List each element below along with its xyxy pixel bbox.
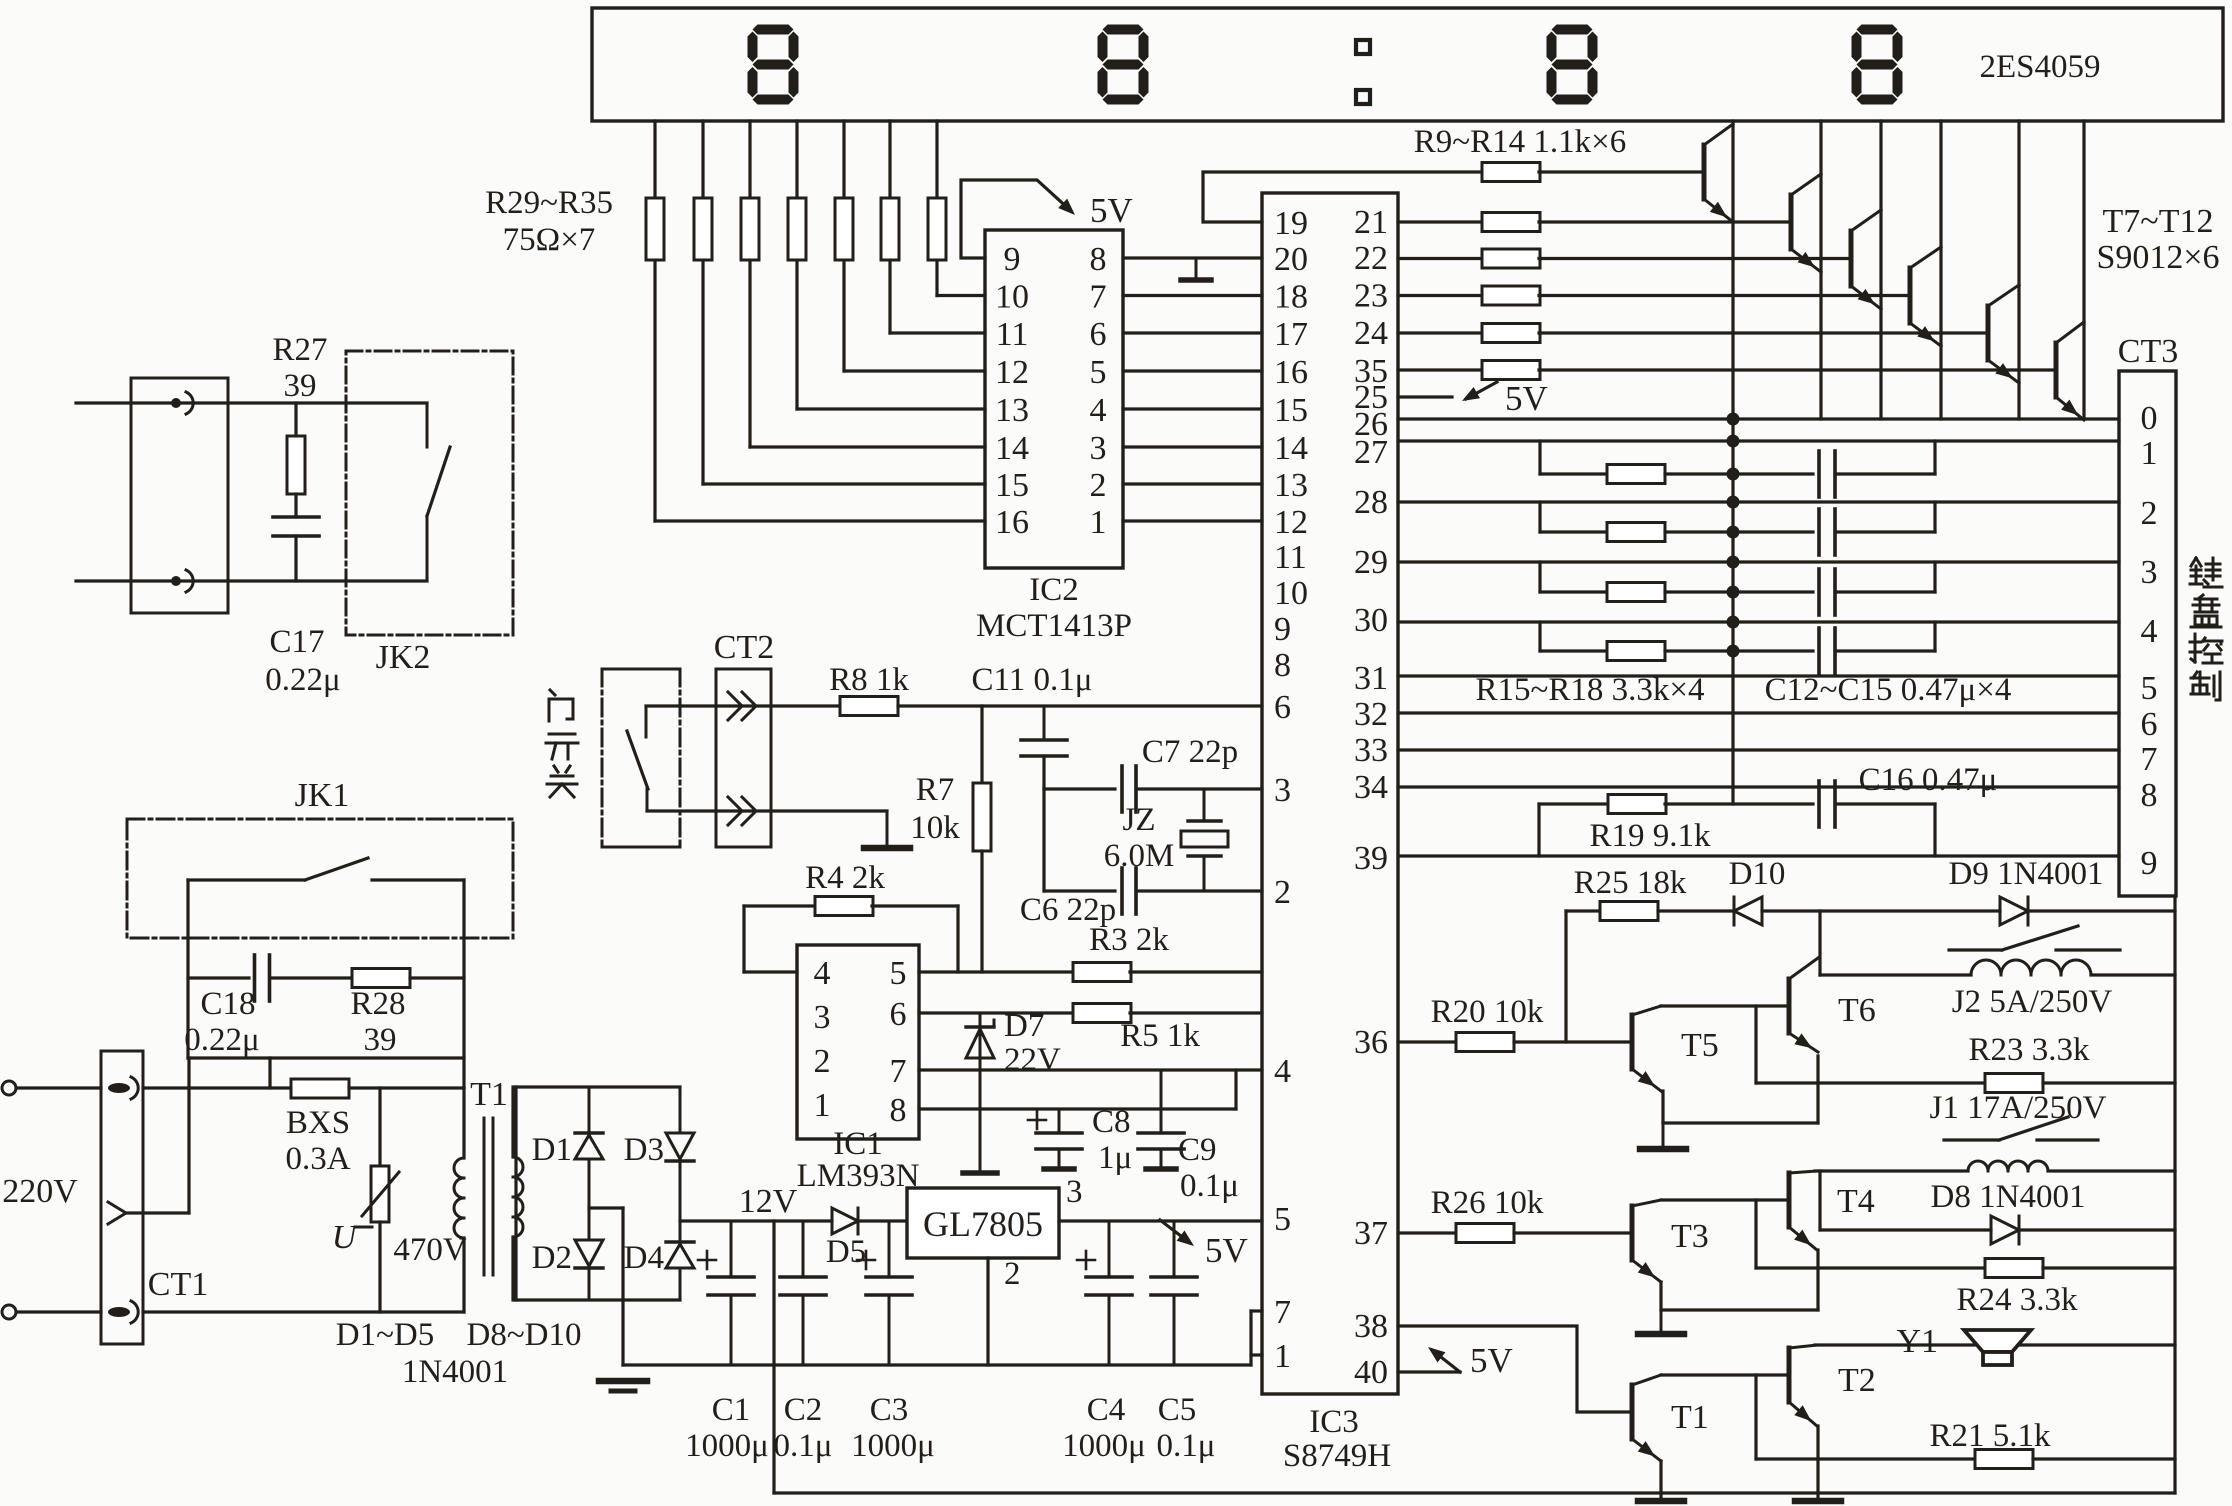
- MCU IC3 S8749H: [1262, 193, 1398, 1394]
- wire D5 to regulator: [858, 1219, 907, 1222]
- transistor T7: [1702, 145, 1707, 199]
- wire IC3 pin to R10: [1398, 220, 1483, 223]
- svg-text:R27: R27: [272, 332, 327, 368]
- capacitor C11: [1043, 706, 1046, 740]
- svg-text:JK1: JK1: [295, 777, 350, 814]
- 5V arrow output: [1160, 1220, 1190, 1243]
- wire R13 to T11 base: [1539, 331, 1988, 334]
- wire J1 coil row: [1815, 1169, 1968, 1172]
- svg-text:40: 40: [1354, 1354, 1388, 1391]
- svg-text:36: 36: [1354, 1024, 1388, 1061]
- switch JK1: [305, 858, 368, 880]
- svg-text:23: 23: [1354, 278, 1388, 315]
- svg-text:CT2: CT2: [714, 629, 774, 666]
- svg-text:27: 27: [1354, 434, 1388, 471]
- wire door row top: [646, 704, 840, 707]
- svg-text:6: 6: [890, 996, 907, 1033]
- ground T3: [1660, 1310, 1663, 1332]
- wire JK1 tap: [268, 1058, 271, 1088]
- junction dots on V1: [1727, 413, 1740, 426]
- bridge center tap: [589, 1206, 623, 1209]
- svg-text:D8 1N4001: D8 1N4001: [1931, 1179, 2086, 1215]
- svg-text:IC2: IC2: [1029, 572, 1079, 608]
- wire R24 row: [1756, 1266, 1985, 1269]
- CT1 terminal mid: [108, 1202, 126, 1224]
- terminal top: [171, 398, 181, 408]
- wire C15 right: [1835, 649, 1935, 652]
- resistor R32: [788, 198, 806, 260]
- svg-text:22: 22: [1354, 240, 1388, 277]
- svg-text:4: 4: [814, 955, 831, 992]
- wire IC3 pin37 row: [1398, 1231, 1456, 1234]
- resistor R18: [1607, 642, 1665, 661]
- diode D4: [679, 1221, 682, 1242]
- wire BXS to T1: [349, 1086, 464, 1089]
- svg-text:10: 10: [1274, 575, 1308, 612]
- wire RC cell 4 right rise: [1933, 622, 1936, 651]
- svg-text:22V: 22V: [1004, 1042, 1061, 1078]
- wire R25 row left: [1566, 909, 1600, 912]
- svg-text:15: 15: [1274, 392, 1308, 429]
- ground C8: [1044, 1166, 1074, 1172]
- svg-text:D8~D10: D8~D10: [466, 1317, 581, 1353]
- svg-text:4: 4: [2141, 613, 2158, 650]
- wire IC3 pin19 loop: [1203, 172, 1483, 222]
- svg-text:4: 4: [1274, 1053, 1291, 1090]
- wire digit common V3: [1879, 121, 1882, 419]
- capacitor C16: [1817, 781, 1821, 827]
- CT1 terminal bottom: [108, 1307, 130, 1317]
- wire pin6 row: [919, 1011, 1074, 1014]
- wire IC3 pin to R11: [1398, 257, 1483, 260]
- resistor R3: [1073, 963, 1131, 982]
- wire pin2 row left: [1042, 789, 1045, 891]
- svg-text:T3: T3: [1671, 1218, 1709, 1255]
- svg-text:T6: T6: [1838, 992, 1876, 1029]
- interlock JK1 box: [127, 819, 513, 938]
- svg-text:5V: 5V: [1205, 1231, 1248, 1270]
- svg-text:C11 0.1μ: C11 0.1μ: [972, 662, 1093, 698]
- transistor T3: [1630, 1206, 1635, 1260]
- wire matrix row pin39: [1398, 854, 2119, 857]
- wire R8 to IC3 pin6: [898, 704, 1262, 707]
- svg-text:C8: C8: [1092, 1104, 1131, 1140]
- wire R3 to IC3: [1130, 970, 1262, 973]
- svg-text:R26 10k: R26 10k: [1431, 1185, 1544, 1221]
- svg-text:5: 5: [2141, 670, 2158, 707]
- diode D10: [1734, 897, 1762, 925]
- svg-text:C16 0.47μ: C16 0.47μ: [1859, 762, 1998, 798]
- wire R27 to C17: [294, 494, 297, 517]
- svg-text:3: 3: [1274, 772, 1291, 809]
- wire to IC2 pin 13: [797, 407, 985, 410]
- wire R14 to T12 base: [1539, 368, 2056, 371]
- wire R7 bottom: [980, 851, 983, 972]
- svg-text:29: 29: [1354, 544, 1388, 581]
- wire IC2 pin3 to IC3: [1123, 445, 1262, 448]
- wire matrix row pin32: [1398, 711, 2119, 714]
- wire mains top: [16, 1086, 101, 1089]
- wire bottom rail: [774, 1491, 2175, 1494]
- wire R4 right: [872, 904, 958, 907]
- CT2 chevrons top: [728, 692, 742, 720]
- svg-text:34: 34: [1354, 769, 1388, 806]
- wire RC cell 3 left drop: [1538, 562, 1541, 592]
- JK1 inner box: [186, 880, 189, 1058]
- svg-text:12V: 12V: [739, 1183, 798, 1220]
- fuse BXS: [291, 1079, 349, 1098]
- svg-text:C3: C3: [870, 1392, 909, 1428]
- svg-text:18: 18: [1274, 279, 1308, 316]
- 7-seg digit 2: [1103, 25, 1144, 35]
- svg-text:9: 9: [1004, 241, 1021, 278]
- wire IC2 pin1 to IC3: [1123, 519, 1262, 522]
- label keyboard control (Chinese): [2191, 558, 2196, 566]
- svg-text:R24 3.3k: R24 3.3k: [1956, 1282, 2078, 1318]
- wire base-R24 link: [1754, 1200, 1757, 1268]
- svg-text:5V: 5V: [1090, 191, 1133, 230]
- wire to IC2 pin 15: [703, 482, 985, 485]
- wire to IC2 pin 11: [890, 331, 985, 334]
- zener D7: [979, 1013, 982, 1171]
- svg-text:9: 9: [2141, 845, 2158, 882]
- svg-text:CT3: CT3: [2118, 333, 2178, 370]
- svg-text:3: 3: [1066, 1174, 1083, 1210]
- wire J1 coil to rail: [2048, 1169, 2175, 1172]
- wire to IC2 pin 16: [655, 519, 985, 522]
- wire display segment 7: [935, 121, 938, 296]
- transistor T9: [1849, 231, 1854, 286]
- wire pin7 row: [919, 1068, 1262, 1071]
- wire R12 to T10 base: [1539, 294, 1910, 297]
- svg-text:1: 1: [1090, 504, 1107, 541]
- wire matrix row pin33: [1398, 748, 2119, 751]
- svg-text:6.0M: 6.0M: [1104, 838, 1175, 874]
- svg-text:1000μ: 1000μ: [685, 1428, 769, 1464]
- svg-text:CT1: CT1: [148, 1266, 208, 1303]
- ground T2: [1795, 1498, 1841, 1505]
- driver IC2 MCT1413P: [985, 230, 1123, 568]
- bridge rectifier box: [516, 1085, 680, 1088]
- wire R19 to C16: [1665, 802, 1813, 805]
- wire to IC2 pin 14: [750, 445, 985, 448]
- svg-text:R28: R28: [350, 986, 405, 1022]
- svg-text:11: 11: [1274, 539, 1307, 576]
- svg-text:8: 8: [1274, 647, 1291, 684]
- svg-text:2: 2: [1274, 874, 1291, 911]
- wire Y1 row: [1815, 1343, 2175, 1346]
- svg-text:16: 16: [995, 504, 1029, 541]
- wire C12 right: [1835, 472, 1935, 475]
- svg-text:37: 37: [1354, 1215, 1388, 1252]
- svg-text:7: 7: [2141, 741, 2158, 778]
- ground on pin8 wire: [1195, 258, 1198, 278]
- wire R28 right: [410, 976, 464, 979]
- wire door row bottom: [647, 809, 887, 812]
- svg-text:7: 7: [890, 1053, 907, 1090]
- transistor T11: [1986, 306, 1991, 360]
- wire base-R21 link: [1754, 1375, 1757, 1459]
- resistor R9: [1482, 163, 1540, 182]
- ground door: [864, 845, 910, 852]
- capacitor C5: [1173, 1221, 1176, 1277]
- resistor R11: [1482, 249, 1540, 268]
- svg-text:15: 15: [995, 467, 1029, 504]
- svg-text:R4 2k: R4 2k: [805, 860, 885, 896]
- svg-text:38: 38: [1354, 1308, 1388, 1345]
- svg-text:75Ω×7: 75Ω×7: [503, 222, 596, 258]
- resistor R30: [694, 198, 712, 260]
- wire digit common V4: [1939, 121, 1942, 419]
- wire RC cell 4 left drop: [1538, 622, 1541, 651]
- svg-text:IC1: IC1: [833, 1126, 883, 1162]
- wire C7 to crystal: [1136, 787, 1262, 790]
- wire pin8 row: [919, 1107, 1236, 1110]
- svg-text:C9: C9: [1178, 1132, 1217, 1168]
- resistor R16: [1607, 523, 1665, 542]
- svg-text:D3: D3: [624, 1132, 664, 1168]
- wire R25 drop: [1564, 911, 1567, 1042]
- svg-text:C12~C15 0.47μ×4: C12~C15 0.47μ×4: [1765, 672, 2012, 708]
- wire T2 emitter foot: [1816, 1426, 1819, 1500]
- resistor R19: [1608, 795, 1666, 814]
- svg-text:8: 8: [890, 1092, 907, 1129]
- svg-text:10k: 10k: [910, 810, 960, 846]
- svg-text:39: 39: [364, 1022, 397, 1058]
- wire T3 emitter foot: [1659, 1282, 1662, 1310]
- resistor R34: [881, 198, 899, 260]
- svg-text:R5 1k: R5 1k: [1120, 1018, 1200, 1054]
- wire IC3 pin to R13: [1398, 331, 1483, 334]
- svg-text:Y1: Y1: [1896, 1323, 1938, 1360]
- resistor R17: [1607, 583, 1665, 602]
- wire T5 emitter foot: [1661, 1091, 1664, 1123]
- resistor R23: [1985, 1074, 2043, 1093]
- svg-text:12: 12: [1274, 504, 1308, 541]
- wire J2 coil feed: [1818, 911, 1821, 975]
- diode D5: [832, 1208, 858, 1234]
- svg-text:5: 5: [1274, 1201, 1291, 1238]
- wire bottom to ground: [886, 811, 889, 846]
- diode D2: [575, 1240, 603, 1266]
- crystal JZ: [1203, 789, 1206, 821]
- wire IC2 pin9 to 5V: [961, 180, 1071, 258]
- resistor R25: [1600, 902, 1658, 921]
- svg-text:1N4001: 1N4001: [402, 1354, 508, 1390]
- svg-text:C2: C2: [784, 1392, 823, 1428]
- wire IC3 pin to R12: [1398, 294, 1483, 297]
- wire R9 to T7 base: [1539, 170, 1704, 173]
- capacitor C3: [888, 1221, 891, 1277]
- svg-text:T7~T12: T7~T12: [2103, 203, 2214, 240]
- svg-text:MCT1413P: MCT1413P: [976, 608, 1132, 644]
- svg-text:19: 19: [1274, 205, 1308, 242]
- wire J2 coil row: [1820, 973, 1971, 976]
- wire C16 right: [1835, 802, 1935, 805]
- svg-text:R29~R35: R29~R35: [485, 185, 613, 221]
- transistor T4: [1787, 1173, 1792, 1227]
- svg-text:0.22μ: 0.22μ: [265, 662, 340, 698]
- wire R5 right: [1130, 1011, 1262, 1014]
- svg-text:R3 2k: R3 2k: [1089, 922, 1169, 958]
- label door switch (Chinese): [550, 690, 555, 695]
- svg-text:470V: 470V: [393, 1232, 467, 1268]
- wire D8 row: [1820, 1228, 1991, 1231]
- resistor R28: [352, 969, 410, 988]
- svg-text:2ES4059: 2ES4059: [1979, 49, 2100, 85]
- diode D3: [679, 1087, 682, 1133]
- svg-text:28: 28: [1354, 484, 1388, 521]
- svg-text:0.1μ: 0.1μ: [774, 1428, 833, 1464]
- svg-text:D2: D2: [532, 1240, 572, 1276]
- 7-seg digit 4: [1857, 25, 1898, 35]
- svg-text:14: 14: [1274, 430, 1308, 467]
- transistor T1: [1630, 1385, 1635, 1439]
- wire BXS row: [143, 1086, 291, 1089]
- 5V arrow on IC3 pin25: [1398, 395, 1452, 398]
- svg-text:R21 5.1k: R21 5.1k: [1929, 1418, 2051, 1454]
- svg-text:3: 3: [2141, 554, 2158, 591]
- terminal circle bottom: [2, 1305, 16, 1319]
- svg-text:1: 1: [2141, 435, 2158, 472]
- svg-text:R15~R18 3.3k×4: R15~R18 3.3k×4: [1476, 672, 1705, 708]
- wire R26 to T3 base: [1514, 1231, 1632, 1234]
- svg-text:0.3A: 0.3A: [285, 1141, 350, 1177]
- wire T1 emitter foot: [1659, 1461, 1662, 1500]
- wire matrix row pin29: [1398, 560, 2119, 563]
- svg-text:D7: D7: [1004, 1008, 1044, 1044]
- wire R17 to C14: [1665, 590, 1813, 593]
- diode D9: [2000, 897, 2028, 925]
- capacitor C9: [1160, 1070, 1163, 1133]
- wire emitter ground row B: [1661, 1308, 1818, 1311]
- wire varistor bottom: [378, 1222, 381, 1312]
- transistor T6: [1787, 979, 1792, 1033]
- wire R25 to D10: [1658, 909, 1733, 912]
- wire D8 to rail: [2019, 1228, 2175, 1231]
- wire C6 to IC3 pin2: [1136, 889, 1262, 892]
- svg-text:6: 6: [1274, 689, 1291, 726]
- transistor T5: [1630, 1015, 1635, 1069]
- wire D8 feed: [1818, 1171, 1821, 1230]
- 5V arrow on IC3 pin40: [1398, 1370, 1460, 1373]
- svg-text:14: 14: [995, 430, 1029, 467]
- wire digit common V6: [2082, 121, 2085, 419]
- wire D10 to D9: [1762, 909, 2000, 912]
- svg-text:5: 5: [1090, 354, 1107, 391]
- main ground: [599, 1378, 647, 1385]
- wire IC2 pin5 to IC3: [1123, 369, 1262, 372]
- svg-text:1000μ: 1000μ: [851, 1428, 935, 1464]
- svg-text:5: 5: [890, 955, 907, 992]
- wire display segment 1: [653, 121, 656, 521]
- svg-text:T5: T5: [1681, 1027, 1719, 1064]
- svg-text:0.1μ: 0.1μ: [1180, 1168, 1239, 1204]
- varistor U 470V: [378, 1088, 381, 1166]
- resistor R4: [815, 897, 873, 916]
- transformer T1 secondary: [511, 1087, 514, 1157]
- wire JK2 top row: [76, 401, 346, 404]
- wire T1 collector to T2 base: [1661, 1373, 1789, 1376]
- wire mains bottom: [16, 1310, 101, 1313]
- wire IC2 pin2 to IC3: [1123, 482, 1262, 485]
- svg-text:10: 10: [995, 279, 1029, 316]
- wire 12V to bottom rail: [772, 1221, 775, 1493]
- svg-text:0.22μ: 0.22μ: [184, 1022, 259, 1058]
- svg-text:8: 8: [1090, 241, 1107, 278]
- svg-text:39: 39: [1354, 840, 1388, 877]
- wire display segment 3: [748, 121, 751, 447]
- wire regulator pin2 down: [986, 1258, 989, 1365]
- relay coil J2: [1971, 960, 2001, 975]
- terminal bottom: [171, 576, 181, 586]
- wire C17 down: [294, 536, 297, 581]
- buzzer Y1: [1964, 1330, 2031, 1352]
- svg-text:20: 20: [1274, 241, 1308, 278]
- svg-text:JZ: JZ: [1123, 802, 1156, 838]
- wire RC cell 2 right rise: [1933, 502, 1936, 532]
- wire T6 emitter foot: [1816, 1056, 1819, 1123]
- svg-text:7: 7: [1274, 1294, 1291, 1331]
- wire RC cell 2 left drop: [1538, 502, 1541, 532]
- door switch box: [602, 668, 680, 671]
- wire pin3 row: [1044, 787, 1115, 790]
- ground D7: [963, 1170, 997, 1176]
- svg-text:1: 1: [814, 1087, 831, 1124]
- wire right rail: [2173, 896, 2176, 1493]
- wire IC2 pin8 to IC3 pin20: [1123, 256, 1262, 259]
- svg-text:IC3: IC3: [1309, 1404, 1359, 1440]
- svg-text:D10: D10: [1729, 856, 1786, 892]
- resistor R12: [1482, 286, 1540, 305]
- wire matrix row pin28: [1398, 500, 2119, 503]
- resistor R8: [840, 697, 898, 716]
- svg-text:J1 17A/250V: J1 17A/250V: [1930, 1090, 2107, 1126]
- svg-text:R20 10k: R20 10k: [1431, 994, 1544, 1030]
- wire CT1 mid to JK1: [126, 1211, 189, 1214]
- wire RC cell 1 left drop: [1538, 441, 1541, 474]
- wire R21 row: [1756, 1457, 1975, 1460]
- terminal circle top: [2, 1081, 16, 1095]
- wire C13 right: [1835, 530, 1935, 533]
- capacitor C8: [1058, 1109, 1061, 1133]
- svg-text:C5: C5: [1158, 1392, 1197, 1428]
- wire 5V row: [1059, 1219, 1262, 1222]
- resistor R26: [1456, 1224, 1514, 1243]
- switch JK2: [346, 401, 427, 404]
- wire display segment 2: [701, 121, 704, 484]
- svg-text:2: 2: [2141, 495, 2158, 532]
- svg-text:R8 1k: R8 1k: [829, 662, 909, 698]
- wire 12V row: [680, 1219, 832, 1222]
- svg-text:D1: D1: [532, 1132, 572, 1168]
- wire emitter ground row A: [1663, 1121, 1818, 1124]
- wire pin5 row: [919, 970, 1074, 973]
- ground T5: [1662, 1123, 1665, 1147]
- wire R23 row: [1756, 1081, 1985, 1084]
- ground C9: [1146, 1166, 1176, 1172]
- wire matrix row pin26: [1398, 417, 2119, 420]
- svg-text:13: 13: [1274, 467, 1308, 504]
- resistor R21: [1975, 1450, 2033, 1469]
- svg-text:D9 1N4001: D9 1N4001: [1949, 856, 2104, 892]
- wire IC3 pin to R14: [1398, 368, 1483, 371]
- svg-text:24: 24: [1354, 315, 1388, 352]
- svg-text:16: 16: [1274, 354, 1308, 391]
- wire IC3 pin36 row: [1398, 1040, 1456, 1043]
- resistor R13: [1482, 324, 1540, 343]
- svg-text:D1~D5: D1~D5: [336, 1317, 435, 1353]
